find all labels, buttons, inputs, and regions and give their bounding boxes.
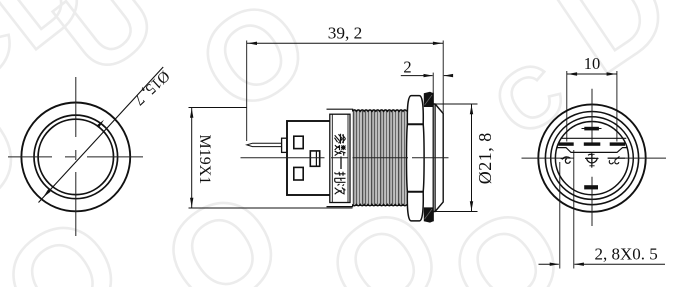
svg-text:2: 2 [403, 58, 411, 77]
rubber washer disk back edge [432, 93, 434, 221]
svg-text:2, 8X0. 5: 2, 8X0. 5 [595, 245, 658, 264]
terminal support line [561, 137, 627, 139]
M19X1 extension lines [189, 107, 247, 109]
pin collar [282, 138, 287, 152]
dimension 2 extension line [432, 73, 434, 93]
rear view horizontal centerline [522, 157, 667, 159]
body cylinder bottom edge [327, 204, 353, 206]
svg-text:Ø21, 8: Ø21, 8 [475, 132, 495, 184]
dimension 10 extension lines [566, 71, 568, 142]
dimension 39.2 extension line right / head front face [442, 41, 444, 114]
diameter 15.7 dimension line [39, 67, 164, 203]
front view outer circle [21, 102, 130, 211]
hex nut bottom facet [407, 192, 423, 221]
housing center connector [310, 151, 319, 166]
rear view outer circle [538, 104, 645, 211]
svg-text:M19X1: M19X1 [196, 135, 213, 185]
center screw terminal [587, 158, 598, 163]
dimension 39.2 extension line left [246, 41, 248, 142]
seal ring top (black) [424, 92, 434, 107]
svg-text:39, 2: 39, 2 [328, 24, 363, 43]
housing lower terminal slot [294, 167, 303, 180]
button head outline with chamfers [433, 104, 443, 212]
front view bezel ring circle [34, 115, 118, 199]
label band text 参数 批次 (drawn glyphs, rotated 90°) [335, 134, 346, 144]
svg-text:10: 10 [584, 54, 601, 73]
rear view vertical centerline [591, 89, 593, 226]
right screw terminal [608, 157, 625, 159]
top terminal bar [584, 127, 599, 131]
seal ring bottom (black) [424, 207, 434, 222]
housing upper terminal slot [294, 136, 303, 148]
rear view circle 4 [555, 122, 628, 195]
front view horizontal centerline [8, 156, 143, 158]
bottom terminal bar [584, 185, 598, 189]
terminal pin [247, 143, 282, 146]
front view vertical centerline [75, 77, 77, 236]
switch housing body [287, 121, 331, 195]
rear view circle 2 [545, 112, 638, 205]
diameter 21.8 extension lines [433, 103, 477, 105]
right terminal bar [610, 142, 625, 145]
left terminal bar [559, 142, 574, 145]
rear view circle 3 [551, 117, 634, 200]
dimension 2.8x0.5 extension lines [559, 162, 561, 269]
body cylinder top edge [327, 109, 353, 111]
side view horizontal centerline [241, 157, 449, 159]
label band [330, 114, 350, 202]
terminal bracket [558, 148, 627, 153]
diameter 21.8 dimension line [471, 104, 473, 212]
hex nut top facet [407, 96, 423, 124]
dimension 2.8x0.5 lines [539, 263, 559, 265]
M19X1 dimension line [191, 108, 193, 209]
left screw terminal [562, 157, 571, 159]
center terminal bar [584, 142, 601, 145]
dimension 10 line [567, 73, 617, 75]
hex nut middle facet [407, 125, 425, 192]
threaded section M19x1 [352, 111, 354, 205]
front view button edge circle [38, 119, 113, 194]
button head back face [434, 104, 436, 212]
dimension 2 lines [401, 75, 433, 77]
dimension 39.2 line [247, 42, 444, 44]
